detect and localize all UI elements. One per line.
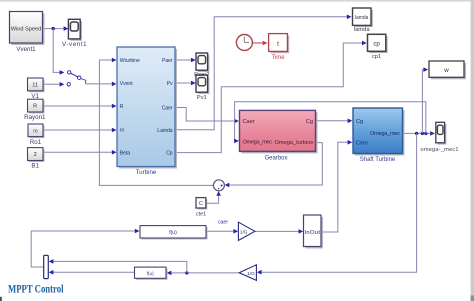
block Vvent1 Wind Speed: [10, 12, 45, 54]
svg-text:lamda: lamda: [354, 27, 371, 33]
wire Turbine Pv to scope Pv1: [175, 81, 196, 86]
wire omega branch up to w workspace: [422, 67, 428, 133]
Fcn f(u) 2: [135, 267, 168, 280]
svg-text:cp: cp: [373, 41, 380, 48]
wire InOut output to Shaft Cem: [321, 140, 352, 232]
svg-text:Rayon1: Rayon1: [24, 114, 46, 121]
svg-text:Caer: Caer: [243, 119, 255, 125]
svg-text:Caer: Caer: [162, 105, 173, 111]
wire Turbine Lamda to lamda workspace: [175, 15, 352, 130]
wire manual switch output to Turbine Vvent: [86, 82, 117, 87]
svg-text:V-vent1: V-vent1: [62, 41, 87, 48]
svg-text:ro: ro: [120, 128, 125, 134]
svg-text:Omega_turbine: Omega_turbine: [275, 140, 314, 146]
node junction bottom: [185, 271, 188, 274]
workspace cp: [368, 34, 388, 60]
svg-text:Cg: Cg: [356, 119, 363, 125]
svg-text:cte1: cte1: [196, 211, 206, 217]
block t Time: [269, 34, 290, 61]
gain 1/G left: [239, 265, 256, 281]
wire Ro1 to Turbine ro: [43, 128, 117, 133]
wire B1 to Turbine Beta: [43, 150, 117, 155]
svg-text:Omega_mec: Omega_mec: [370, 131, 400, 137]
svg-text:Pv1: Pv1: [197, 95, 207, 101]
wire Vvent1 to scope V-vent1: [43, 26, 68, 31]
scope Pv1: [196, 75, 209, 101]
svg-text:f(u): f(u): [147, 271, 154, 276]
workspace lamda: [353, 8, 373, 33]
node junction on Vvent1 wire: [52, 27, 55, 30]
node junction omega 2: [421, 132, 424, 135]
product block (circle): [213, 180, 224, 191]
svg-text:Cp: Cp: [166, 151, 173, 157]
svg-text:1/G: 1/G: [247, 271, 255, 277]
subsystem InOut: [304, 215, 324, 249]
svg-text:Omega_mec: Omega_mec: [243, 139, 273, 145]
svg-text:11: 11: [32, 82, 38, 88]
wire gain 1/G2 to Fcn2: [167, 271, 239, 276]
wire Gearbox Omega_turbine to product: [225, 143, 323, 188]
wire omega branch down to bottom gain 1/G2: [257, 133, 417, 274]
wire Fcn1 to gain 1/G1 with caer label: [206, 220, 238, 234]
svg-text:caer: caer: [218, 220, 228, 226]
svg-text:R: R: [120, 104, 124, 110]
wire gain 1/G1 to InOut: [255, 229, 303, 234]
scope V-vent1: [62, 19, 87, 48]
svg-text:lamda: lamda: [355, 15, 369, 21]
scope omega-_mec1: [421, 122, 459, 153]
constant Rayon1: [24, 99, 46, 121]
clock block: [236, 35, 252, 51]
svg-text:omega-_mec1: omega-_mec1: [421, 147, 459, 153]
constant cte1: [196, 198, 207, 218]
wire feedback product to Turbine Wturbine: [99, 58, 213, 186]
svg-text:Paer2: Paer2: [194, 72, 209, 78]
scope Paer2: [196, 53, 209, 72]
wire Rayon1 to Turbine R: [43, 104, 117, 109]
svg-text:C: C: [199, 201, 203, 207]
svg-text:Wturbine: Wturbine: [120, 58, 140, 64]
wire cte1 to product: [206, 191, 221, 203]
subsystem Shaft Turbine: [353, 108, 405, 163]
svg-text:MPPT Control: MPPT Control: [8, 284, 64, 296]
node junction omega 1: [415, 132, 418, 135]
wire clock to t: [253, 41, 268, 46]
constant Ro1: [28, 124, 45, 146]
wire Gearbox Cg to Shaft Turbine Cg: [316, 119, 353, 124]
gain 1/G right: [238, 222, 255, 240]
svg-text:Vvent1: Vvent1: [16, 46, 36, 53]
svg-text:cp1: cp1: [372, 54, 381, 60]
svg-text:t: t: [277, 41, 279, 48]
constant B1: [28, 148, 45, 170]
svg-text:Ro1: Ro1: [30, 139, 42, 146]
svg-text:Cem: Cem: [356, 140, 368, 146]
wire Turbine Cp to cp1 workspace: [175, 41, 367, 153]
svg-text:R: R: [33, 104, 37, 110]
svg-text:w: w: [443, 67, 449, 74]
frame: bottom-right scrollbar corner: [471, 296, 474, 301]
wire mux output to f(u) Fcn1: [31, 229, 139, 267]
frame: right gray strip: [471, 0, 474, 301]
wire V1 to manual switch input 2: [43, 82, 64, 87]
svg-text:2: 2: [34, 152, 37, 158]
svg-text:f(u): f(u): [169, 230, 177, 236]
svg-text:Shaft Turbine: Shaft Turbine: [360, 157, 396, 163]
wire Turbine Caer to Gearbox Caer: [175, 108, 239, 124]
workspace w: [429, 61, 466, 79]
constant V1: [28, 78, 45, 100]
svg-text:Time: Time: [271, 55, 285, 61]
svg-text:InOut: InOut: [304, 230, 320, 236]
subsystem Gearbox: [240, 110, 318, 161]
frame: bottom-left corner mark: [0, 297, 2, 301]
svg-text:B1: B1: [31, 163, 39, 170]
wire Fcn2 to mux input 2: [49, 270, 135, 275]
svg-text:Vvent: Vvent: [120, 81, 133, 87]
Fcn f(u) 1: [140, 226, 208, 240]
svg-text:Wind Speed: Wind Speed: [11, 27, 41, 33]
svg-text:Gearbox: Gearbox: [264, 155, 287, 161]
node junction omega 3: [424, 132, 427, 135]
svg-text:Cg: Cg: [306, 119, 313, 125]
svg-text:Beta: Beta: [120, 150, 131, 156]
mux block: [44, 255, 49, 278]
wire Turbine Paer to scope Paer2: [175, 58, 196, 63]
svg-text:1/G: 1/G: [240, 229, 248, 235]
svg-text:Turbine: Turbine: [136, 169, 157, 176]
svg-text:Pv: Pv: [167, 81, 173, 87]
svg-text:ro: ro: [33, 128, 38, 134]
wire Shaft Omega_mec to scope omega-_mec1: [403, 131, 435, 136]
wire junction up to mux input 1: [49, 259, 187, 273]
svg-text:Paer: Paer: [162, 58, 173, 64]
svg-text:Lamda: Lamda: [157, 128, 173, 134]
subsystem Turbine: [117, 47, 177, 176]
wire omega branch to Gearbox Omega_mec feedback: [234, 102, 426, 143]
frame: top gray strip: [0, 0, 474, 2]
manual switch: [67, 71, 86, 86]
wire junction down to manual switch input 1: [53, 29, 64, 75]
